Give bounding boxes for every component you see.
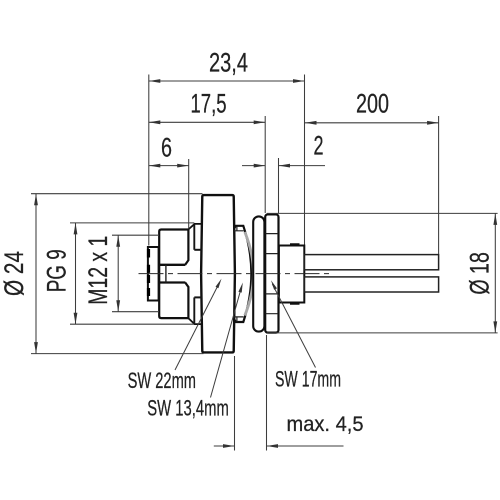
extension line PG9 top (70, 222, 194, 224)
svg-text:SW 13,4mm: SW 13,4mm (147, 396, 229, 421)
dimension 2 (242, 165, 265, 167)
extension line nut left (264, 116, 266, 213)
hex nut flat lines (266, 234, 279, 314)
extension line max45 right (266, 335, 268, 451)
dimension 200 (305, 122, 439, 124)
extension line dia18 top (267, 212, 498, 214)
svg-text:23,4: 23,4 (209, 48, 248, 78)
svg-text:max. 4,5: max. 4,5 (287, 412, 364, 436)
O-ring gasket disc (253, 216, 264, 331)
extension line PG9 bottom (70, 323, 194, 325)
dimension PG9 (75, 223, 77, 324)
svg-text:2: 2 (314, 131, 324, 161)
M12 thread cylinder (159, 230, 188, 319)
dimension 6 (149, 165, 189, 167)
svg-text:17,5: 17,5 (191, 88, 227, 118)
PG9 thread section (188, 224, 202, 324)
wire top (305, 255, 439, 270)
collar shading arc (245, 232, 254, 316)
sleeve tabs (290, 244, 300, 303)
svg-text:PG 9: PG 9 (42, 249, 72, 292)
hex body SW22 (201, 195, 235, 352)
extension line 6 right (188, 159, 190, 229)
contact marks on front face (147, 249, 150, 296)
leader SW 22mm (175, 287, 217, 370)
dimension M12x1 (117, 235, 119, 312)
front mating face block (148, 247, 159, 301)
extension line dia24 top (31, 193, 203, 195)
dimension 17,5 (149, 121, 265, 123)
SW13,4 collar (234, 226, 251, 322)
extension line back face (304, 75, 306, 245)
extension line dia18 bottom (267, 332, 498, 334)
extension line front face (148, 75, 150, 246)
svg-text:SW 22mm: SW 22mm (128, 368, 196, 393)
extension line wire end (438, 116, 440, 254)
SW17 hex nut (265, 214, 278, 332)
back crimp sleeve (279, 246, 304, 303)
svg-text:SW 17mm: SW 17mm (275, 367, 341, 392)
dimension Ø18 (494, 213, 496, 333)
dimension Ø24 (35, 194, 37, 354)
contact insert neck (159, 264, 186, 266)
leader SW 13,4mm (211, 287, 242, 398)
dimension max. 4,5 (214, 445, 235, 447)
extension line M12 bottom (112, 311, 159, 313)
extension line nut right (278, 158, 280, 213)
svg-text:200: 200 (356, 89, 389, 119)
svg-text:M12 x 1: M12 x 1 (83, 236, 113, 305)
centerline axis (139, 273, 332, 275)
extension line M12 top (112, 234, 159, 236)
wire bottom (305, 277, 439, 292)
svg-text:6: 6 (161, 133, 172, 163)
extension line max45 left (234, 356, 236, 451)
extension line dia24 bottom (31, 353, 204, 355)
leader SW 17mm (272, 284, 315, 368)
dimension 23,4 (149, 80, 305, 82)
svg-text:Ø 18: Ø 18 (465, 252, 495, 295)
svg-text:Ø 24: Ø 24 (0, 251, 29, 296)
